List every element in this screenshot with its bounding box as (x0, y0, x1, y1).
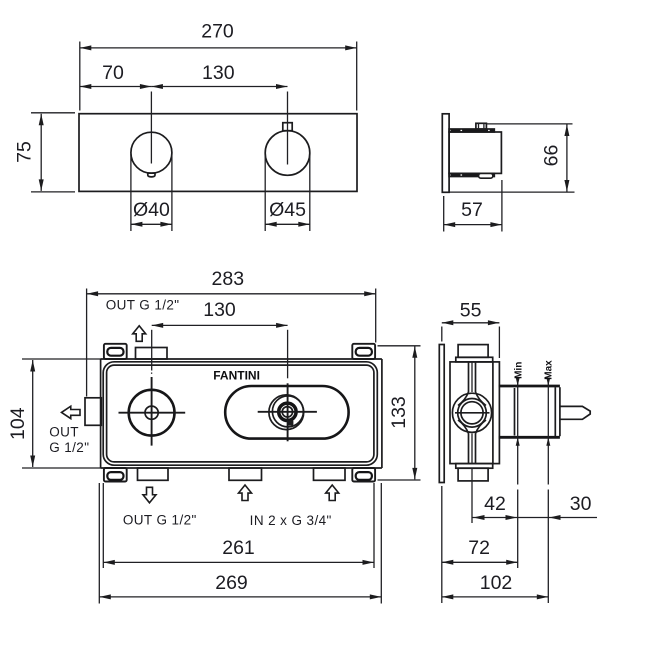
svg-text:OUT G 1/2": OUT G 1/2" (106, 298, 180, 313)
svg-text:102: 102 (480, 572, 513, 594)
svg-text:Min: Min (513, 362, 524, 379)
svg-text:66: 66 (541, 145, 563, 167)
svg-text:IN 2 x G 3/4": IN 2 x G 3/4" (250, 513, 332, 528)
svg-text:269: 269 (215, 572, 248, 594)
svg-text:42: 42 (484, 493, 506, 515)
svg-text:OUT: OUT (49, 425, 79, 440)
svg-text:G 1/2": G 1/2" (49, 440, 89, 455)
svg-text:FANTINI: FANTINI (213, 368, 260, 382)
svg-text:270: 270 (201, 21, 234, 43)
svg-text:133: 133 (388, 396, 410, 429)
svg-text:30: 30 (570, 493, 592, 515)
svg-text:57: 57 (461, 199, 483, 221)
svg-text:75: 75 (14, 141, 36, 163)
svg-text:72: 72 (468, 537, 490, 559)
svg-text:130: 130 (203, 299, 236, 321)
svg-text:55: 55 (460, 299, 482, 321)
svg-text:283: 283 (212, 268, 245, 290)
svg-text:OUT G 1/2": OUT G 1/2" (123, 512, 197, 527)
svg-text:104: 104 (7, 407, 29, 440)
svg-text:Max: Max (543, 360, 554, 380)
svg-text:Ø45: Ø45 (269, 199, 306, 221)
svg-text:Ø40: Ø40 (133, 199, 170, 221)
svg-text:130: 130 (202, 62, 235, 84)
svg-text:70: 70 (102, 62, 124, 84)
svg-text:261: 261 (222, 537, 255, 559)
